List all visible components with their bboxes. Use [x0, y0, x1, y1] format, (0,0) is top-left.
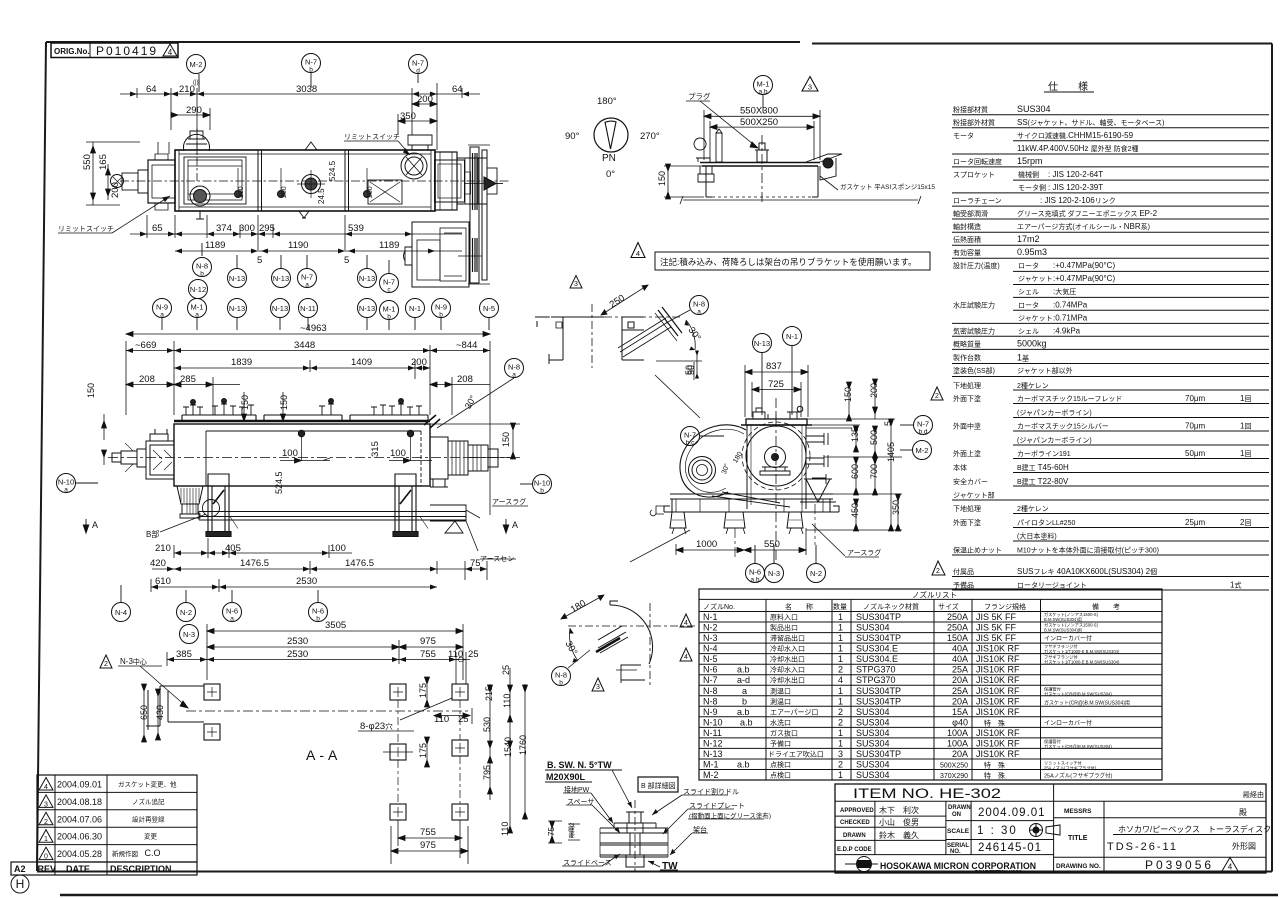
svg-text:B. SW. N. 5°TW: B. SW. N. 5°TW — [547, 760, 612, 770]
svg-text:SUS304: SUS304 — [856, 707, 890, 717]
main drum dashed — [746, 426, 806, 486]
balloon N-8-a — [690, 296, 709, 316]
gap2 dim — [568, 824, 580, 840]
svg-text:N-8: N-8 — [693, 300, 705, 309]
right vertical dims — [391, 668, 528, 864]
small fittings mid top — [305, 142, 317, 150]
svg-text:4: 4 — [1228, 863, 1233, 872]
rev bottom header row — [11, 862, 197, 875]
svg-text:100: 100 — [282, 448, 298, 459]
svg-text:1 : 30: 1 : 30 — [977, 825, 1018, 837]
svg-text:2530: 2530 — [287, 636, 308, 647]
svg-text:ホソカワ/ピーベックス トーラスディスク: ホソカワ/ピーベックス トーラスディスク — [1118, 824, 1271, 834]
svg-text:MESSRS: MESSRS — [1064, 808, 1092, 815]
svg-text:1: 1 — [838, 633, 843, 643]
small drains — [235, 191, 242, 198]
svg-text:2530: 2530 — [287, 649, 308, 660]
balloon N-7-a — [298, 255, 317, 289]
balloon M-2 — [187, 55, 206, 93]
svg-text:N-3: N-3 — [183, 630, 195, 639]
balloon N-13 — [272, 255, 291, 288]
svg-text:伝熱面積: 伝熱面積 — [953, 235, 981, 244]
svg-text:208: 208 — [457, 374, 473, 385]
svg-text:ガスケット(CR@)B.M.SW(SUS304): ガスケット(CR@)B.M.SW(SUS304) — [1044, 743, 1112, 750]
left hopper — [177, 486, 203, 504]
svg-text:N-12: N-12 — [703, 738, 723, 748]
svg-text:1476.5: 1476.5 — [345, 558, 374, 569]
leader — [568, 650, 590, 668]
dim 200 right — [412, 102, 437, 107]
50 dim — [656, 352, 702, 377]
svg-text:JIS10K RF: JIS10K RF — [976, 707, 1020, 717]
svg-text:安全カバー: 安全カバー — [953, 477, 988, 486]
svg-text:ロータ回転速度: ロータ回転速度 — [953, 157, 1002, 166]
svg-text:1476.5: 1476.5 — [240, 558, 269, 569]
svg-text:DESCRIPTION: DESCRIPTION — [110, 864, 172, 874]
svg-text:M-2: M-2 — [916, 446, 929, 455]
rev descriptions — [112, 780, 177, 859]
svg-text:3505: 3505 — [325, 620, 346, 631]
svg-text:(大日本塗料): (大日本塗料) — [1017, 532, 1057, 541]
svg-text:B 部詳細図: B 部詳細図 — [641, 781, 676, 790]
svg-text:385: 385 — [176, 649, 192, 660]
svg-text:90°: 90° — [565, 131, 580, 142]
svg-text:290: 290 — [186, 105, 202, 116]
svg-text:ノズルNo.: ノズルNo. — [703, 602, 735, 611]
base rails — [199, 512, 466, 517]
svg-text:点検口: 点検口 — [770, 771, 791, 780]
svg-text:500X250: 500X250 — [740, 117, 778, 128]
svg-text:1000: 1000 — [696, 539, 717, 550]
svg-text:700: 700 — [869, 464, 879, 479]
svg-text:1回: 1回 — [1240, 394, 1251, 403]
svg-text:JIS10K RF: JIS10K RF — [976, 696, 1020, 706]
balloon N-9-a — [153, 299, 172, 331]
svg-text:M-2: M-2 — [190, 60, 203, 69]
svg-text:N-10: N-10 — [703, 717, 723, 727]
svg-text:a: a — [160, 312, 164, 319]
svg-text:N-8: N-8 — [508, 363, 520, 372]
svg-text:JIS10K RF: JIS10K RF — [976, 644, 1020, 654]
svg-text:ガスケット変更、他: ガスケット変更、他 — [118, 780, 177, 789]
svg-text:φ40: φ40 — [952, 717, 968, 727]
svg-text:点検口: 点検口 — [770, 760, 791, 769]
svg-text:3: 3 — [838, 749, 843, 759]
svg-text:40A: 40A — [952, 644, 968, 654]
svg-text:N-2: N-2 — [180, 608, 192, 617]
svg-text:15A: 15A — [952, 707, 968, 717]
svg-text:50: 50 — [686, 365, 696, 375]
vertical dim 200 marks inside — [238, 160, 374, 204]
svg-text:975: 975 — [420, 840, 436, 851]
balloon N-13 — [271, 299, 290, 331]
N-8a nozzle 30deg top-right — [424, 415, 440, 428]
svg-text:水圧試験圧力: 水圧試験圧力 — [953, 301, 995, 310]
right drive end — [430, 437, 498, 487]
svg-text:粉接部材質: 粉接部材質 — [953, 105, 988, 114]
svg-text:SUS304.E: SUS304.E — [856, 654, 898, 664]
svg-text:1基: 1基 — [1017, 353, 1029, 363]
svg-text:SUS304: SUS304 — [856, 760, 890, 770]
guard bottom diagonal — [712, 492, 790, 507]
flange cut — [598, 626, 628, 653]
svg-text:SUS304TP: SUS304TP — [856, 749, 901, 759]
svg-text:N-1: N-1 — [786, 332, 798, 341]
svg-text:PN: PN — [602, 153, 616, 164]
svg-text:25Aノズル(フサギプラグ付): 25Aノズル(フサギプラグ付) — [1044, 772, 1113, 780]
earth lug leader — [630, 530, 690, 562]
svg-text:名 称: 名 称 — [785, 602, 813, 611]
svg-text:軸封構造: 軸封構造 — [953, 222, 981, 231]
svg-text:15rpm: 15rpm — [1017, 156, 1043, 166]
legs — [206, 474, 418, 537]
svg-text:JIS10K RF: JIS10K RF — [976, 738, 1020, 748]
svg-text:500: 500 — [869, 430, 879, 445]
center plug — [755, 143, 769, 162]
dim 500x250 — [710, 121, 814, 160]
svg-text:M-1: M-1 — [383, 305, 396, 314]
svg-text:JIS10K RF: JIS10K RF — [976, 665, 1020, 675]
svg-text:450: 450 — [850, 503, 860, 518]
scale symbols — [1030, 824, 1061, 837]
svg-text:25A: 25A — [952, 686, 968, 696]
top view body — [175, 150, 435, 211]
svg-text:N-3: N-3 — [768, 569, 780, 578]
svg-text:a.b: a.b — [737, 665, 750, 675]
svg-text:TDS-26-11: TDS-26-11 — [1107, 841, 1178, 853]
svg-text::0.74MPa: :0.74MPa — [1053, 301, 1088, 310]
svg-text:75: 75 — [547, 827, 556, 836]
svg-text:サイクロ減速機.CHHM15-6190-59: サイクロ減速機.CHHM15-6190-59 — [1017, 131, 1134, 140]
svg-text:NO.: NO. — [950, 849, 961, 855]
balloon M-1-b — [380, 301, 399, 331]
svg-text:モータ: モータ — [953, 131, 974, 140]
svg-text:リミットスイッチ: リミットスイッチ — [58, 225, 114, 233]
svg-text:11kW.4P.400V.50Hz 屋外型 防食2種: 11kW.4P.400V.50Hz 屋外型 防食2種 — [1017, 144, 1139, 153]
svg-text:N-2: N-2 — [703, 623, 718, 633]
B detail box label — [638, 777, 678, 792]
svg-text:1409: 1409 — [351, 357, 372, 368]
svg-text:ON: ON — [952, 812, 961, 818]
svg-text:A: A — [512, 520, 518, 530]
scan mark H bottom-left — [11, 875, 29, 893]
svg-text:755: 755 — [420, 827, 436, 838]
dims below — [174, 538, 352, 558]
triangles 4 — [680, 614, 692, 627]
svg-text:2種ケレン: 2種ケレン — [1017, 382, 1049, 390]
svg-text:524.5: 524.5 — [274, 471, 284, 494]
nozzle verticals — [766, 599, 1041, 780]
svg-text:シェル: シェル — [1018, 329, 1039, 336]
right section vent circle — [401, 153, 427, 179]
svg-text::大気圧: :大気圧 — [1053, 287, 1076, 296]
partitions — [258, 150, 349, 211]
svg-text:DRAWN: DRAWN — [948, 805, 971, 811]
right dims — [806, 379, 902, 531]
plates — [600, 828, 668, 857]
dim 837 — [745, 365, 808, 417]
svg-text:N-7: N-7 — [412, 59, 424, 68]
svg-text:30°: 30° — [720, 462, 731, 475]
svg-text:N-4: N-4 — [703, 644, 718, 654]
dim 2530/975 — [207, 640, 463, 664]
svg-text:N-8: N-8 — [196, 262, 208, 271]
svg-text:30°: 30° — [463, 393, 478, 410]
svg-text:4: 4 — [44, 784, 48, 791]
svg-text:200: 200 — [417, 94, 433, 105]
svg-text:2: 2 — [935, 393, 939, 400]
svg-text:予備口: 予備口 — [770, 739, 791, 748]
svg-text:N-12: N-12 — [190, 285, 206, 294]
svg-text:N-13: N-13 — [229, 274, 245, 283]
svg-text:24.5: 24.5 — [317, 188, 326, 204]
balloon N-7-b.c — [681, 427, 725, 447]
svg-text:ジャケット: ジャケット — [1018, 275, 1053, 283]
svg-text:リミットスイッチ: リミットスイッチ — [344, 133, 400, 141]
svg-text:837: 837 — [766, 361, 782, 372]
drains + 100 dims — [298, 430, 304, 436]
balloon N-9-b — [432, 299, 451, 331]
dim row 669/3448/844 — [126, 341, 490, 515]
svg-text:注記:積み込み、荷降ろしは架台の吊りブラケットを使用願います: 注記:積み込み、荷降ろしは架台の吊りブラケットを使用願います。 — [660, 257, 917, 267]
svg-text:木下 利次: 木下 利次 — [879, 805, 919, 815]
svg-text:1回: 1回 — [1240, 449, 1251, 458]
svg-text:SUS304TP: SUS304TP — [856, 633, 901, 643]
svg-text:25Aノズル(フサギプラグ付): 25Aノズル(フサギプラグ付) — [1044, 765, 1097, 772]
top fittings — [753, 408, 800, 419]
svg-text:1: 1 — [838, 654, 843, 664]
balloon N-7-d — [409, 55, 428, 84]
svg-text:N-7: N-7 — [917, 420, 929, 429]
svg-text:75: 75 — [470, 558, 481, 569]
right section box — [368, 180, 402, 204]
svg-text:b: b — [309, 67, 313, 74]
svg-text:5: 5 — [257, 255, 262, 266]
svg-text:A: A — [92, 520, 98, 530]
svg-text:30°: 30° — [686, 325, 703, 343]
svg-text:M-1: M-1 — [703, 760, 719, 770]
svg-text:変更: 変更 — [144, 832, 158, 841]
svg-text:a.b: a.b — [737, 760, 750, 770]
svg-text:~4963: ~4963 — [300, 323, 327, 334]
svg-text:SUS304TP: SUS304TP — [856, 686, 901, 696]
svg-text:2004.08.18: 2004.08.18 — [57, 797, 102, 807]
triangle 3 — [592, 678, 604, 691]
balloon N-10-a — [57, 474, 99, 494]
casing top band — [746, 419, 807, 425]
svg-text:374: 374 — [216, 223, 232, 234]
svg-text:SUS304: SUS304 — [856, 717, 890, 727]
svg-text:100A: 100A — [947, 738, 968, 748]
top plates — [182, 415, 428, 421]
balloon N-12 — [189, 280, 208, 299]
svg-text:外面中塗: 外面中塗 — [953, 422, 981, 431]
dim row below2: 1189 1190 1189 — [175, 249, 462, 254]
svg-text:JIS10K RF: JIS10K RF — [976, 728, 1020, 738]
svg-text:機械側: 機械側 — [1018, 170, 1039, 179]
svg-text:755: 755 — [420, 649, 436, 660]
svg-text:1: 1 — [838, 644, 843, 654]
svg-text:A-A: A-A — [306, 747, 341, 763]
svg-text:0°: 0° — [606, 169, 615, 180]
rev dates — [57, 780, 102, 860]
svg-text:b: b — [387, 314, 391, 321]
spec row texts — [953, 104, 1251, 590]
balloon N-10-b — [520, 475, 552, 495]
svg-text:SUS304TP: SUS304TP — [856, 612, 901, 622]
svg-text:a.b: a.b — [758, 89, 767, 96]
svg-text:ガスケット(CR@)B.M.SW(SUS304): ガスケット(CR@)B.M.SW(SUS304) — [1044, 691, 1112, 698]
svg-text:a.b: a.b — [737, 707, 750, 717]
balloon N-6-b — [309, 590, 328, 623]
svg-text:25: 25 — [501, 665, 511, 675]
nozzle header row — [703, 602, 1120, 611]
svg-text:: JIS 120-2-106リンク: : JIS 120-2-106リンク — [1040, 196, 1116, 205]
svg-text:フランジ規格: フランジ規格 — [984, 602, 1026, 611]
svg-text:285: 285 — [180, 374, 196, 385]
balloon M-1-a — [188, 299, 207, 331]
svg-text:塗装色(SS部): 塗装色(SS部) — [953, 366, 995, 375]
shaft — [765, 447, 786, 468]
svg-text:: JIS 120-2-64T: : JIS 120-2-64T — [1048, 170, 1103, 179]
svg-text:エアーパージ方式(オイルシール・NBR系): エアーパージ方式(オイルシール・NBR系) — [1017, 222, 1150, 231]
svg-text:110: 110 — [434, 714, 449, 725]
svg-text:2: 2 — [838, 717, 843, 727]
svg-text:ローラチェーン: ローラチェーン — [953, 197, 1002, 205]
svg-text:ガス抜口: ガス抜口 — [770, 728, 798, 737]
limit switch fitting top right — [408, 135, 432, 150]
svg-text:17m2: 17m2 — [1017, 234, 1040, 244]
svg-text:600: 600 — [850, 464, 860, 479]
svg-text:0: 0 — [44, 854, 48, 861]
svg-text:2回: 2回 — [1240, 518, 1251, 527]
svg-text:150A: 150A — [947, 633, 968, 643]
svg-text:N-7: N-7 — [684, 431, 696, 440]
svg-text:a: a — [512, 372, 516, 379]
top fittings — [183, 399, 422, 416]
svg-text:64: 64 — [452, 84, 463, 95]
right bracket — [806, 154, 842, 180]
svg-text:2530: 2530 — [296, 576, 317, 587]
svg-text:DRAWING NO.: DRAWING NO. — [1056, 863, 1101, 870]
dim 550x300 — [704, 110, 820, 160]
svg-text:5000kg: 5000kg — [1017, 339, 1047, 349]
svg-text:200: 200 — [110, 182, 121, 198]
dim 350 — [398, 114, 437, 135]
svg-text:N-13: N-13 — [703, 749, 723, 759]
svg-text:2種ケレン: 2種ケレン — [1017, 505, 1049, 513]
svg-text:カーボマスチック15シルバー: カーボマスチック15シルバー — [1017, 423, 1109, 431]
svg-text:4: 4 — [684, 620, 688, 627]
svg-text:5: 5 — [883, 421, 893, 426]
svg-text:カーボマスチック15ルーフレッド: カーボマスチック15ルーフレッド — [1017, 395, 1122, 403]
svg-text:外面下塗: 外面下塗 — [953, 518, 981, 527]
svg-text:B建工 T22-80V: B建工 T22-80V — [1017, 477, 1069, 486]
dim 3505 — [207, 624, 463, 680]
svg-text:a: a — [742, 686, 747, 696]
svg-text:N-1: N-1 — [703, 612, 718, 622]
svg-text:25: 25 — [458, 714, 469, 725]
svg-text:備 考: 備 考 — [1092, 602, 1120, 611]
svg-text:150: 150 — [279, 395, 289, 410]
svg-text:1: 1 — [838, 728, 843, 738]
svg-text:ガスケット1/T1000-E B.M.SW(SUS304): ガスケット1/T1000-E B.M.SW(SUS304) — [1044, 659, 1120, 666]
svg-text:JIS10K RF: JIS10K RF — [976, 686, 1020, 696]
svg-text:N-6: N-6 — [312, 607, 324, 616]
balloon N-4 — [112, 585, 131, 622]
title underline — [1113, 834, 1262, 836]
svg-text:SUS304.E: SUS304.E — [856, 644, 898, 654]
svg-text:有効容量: 有効容量 — [953, 248, 981, 257]
svg-text:b: b — [540, 488, 544, 495]
svg-text:550: 550 — [82, 154, 93, 170]
svg-text:ドライエア吹込口: ドライエア吹込口 — [768, 750, 824, 759]
balloon N-3 — [180, 625, 199, 644]
svg-text:滞留品出口: 滞留品出口 — [770, 634, 805, 643]
bottom ticks — [680, 196, 921, 204]
svg-text:200: 200 — [869, 383, 879, 398]
balloon N-8-a — [505, 359, 524, 379]
svg-text:スプロケット: スプロケット — [953, 171, 995, 179]
svg-text:鈴木 義久: 鈴木 義久 — [879, 830, 919, 840]
svg-text:N-7: N-7 — [301, 273, 313, 282]
svg-text:300: 300 — [239, 223, 255, 234]
svg-text:b.c: b.c — [686, 440, 695, 447]
nozzle rows text — [703, 611, 1130, 780]
svg-text:3038: 3038 — [296, 84, 317, 95]
svg-text:200: 200 — [238, 186, 245, 198]
svg-text:1839: 1839 — [231, 357, 252, 368]
balloon M-1-a.b — [754, 76, 773, 113]
svg-text:N-2: N-2 — [810, 569, 822, 578]
svg-text:アースラグ: アースラグ — [847, 548, 881, 557]
svg-text:350: 350 — [400, 111, 416, 122]
centerlines — [568, 625, 696, 627]
svg-text:b: b — [316, 616, 320, 623]
svg-text:530: 530 — [482, 717, 492, 732]
svg-text:SUS304: SUS304 — [856, 623, 890, 633]
svg-text:M-1: M-1 — [191, 303, 204, 312]
svg-text:539: 539 — [348, 223, 364, 234]
svg-text:2: 2 — [838, 665, 843, 675]
big arc — [610, 605, 653, 664]
A section arrows — [83, 519, 89, 533]
svg-text:110: 110 — [500, 822, 510, 836]
svg-text:B建工 T45-60H: B建工 T45-60H — [1017, 463, 1069, 472]
svg-text:a: a — [697, 309, 701, 316]
dims below — [676, 528, 806, 555]
svg-text:N-4: N-4 — [115, 608, 127, 617]
svg-text:4: 4 — [168, 48, 173, 57]
svg-text:1760: 1760 — [518, 735, 528, 755]
svg-text:1回: 1回 — [1240, 422, 1251, 431]
svg-text:200: 200 — [281, 186, 288, 198]
svg-text:N-9: N-9 — [435, 303, 447, 312]
nozzle row rules — [699, 622, 1162, 770]
svg-text:150: 150 — [501, 432, 511, 447]
svg-text:5: 5 — [344, 255, 349, 266]
triangle 2 — [100, 655, 112, 668]
svg-text:~844: ~844 — [456, 340, 477, 351]
svg-text:175: 175 — [418, 683, 428, 698]
svg-text:下地処理: 下地処理 — [953, 504, 981, 513]
svg-text:ジャケット: ジャケット — [1018, 315, 1053, 323]
svg-text:2: 2 — [44, 819, 48, 826]
svg-text:3: 3 — [574, 281, 578, 288]
balloon N-13 — [358, 299, 377, 331]
svg-text:N-11: N-11 — [703, 728, 722, 738]
svg-text:N-13: N-13 — [229, 304, 245, 313]
